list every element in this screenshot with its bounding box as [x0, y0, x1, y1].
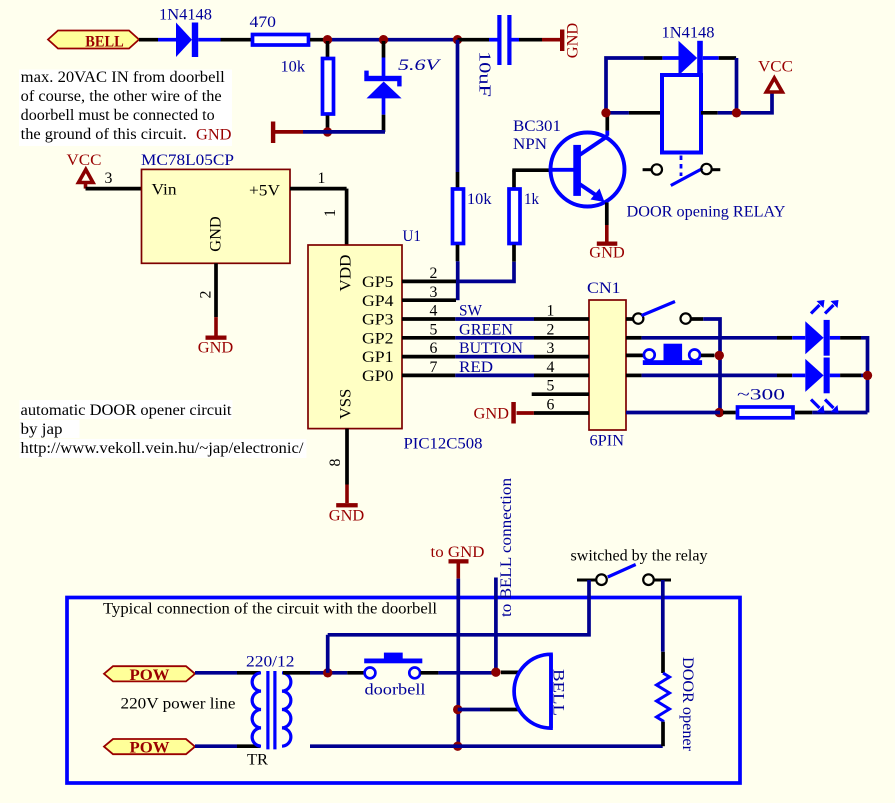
svg-text:5: 5 — [547, 378, 555, 395]
diode D1 1N4148 — [158, 23, 221, 58]
svg-text:SW: SW — [459, 303, 482, 320]
svg-text:TR: TR — [247, 752, 269, 769]
svg-text:4: 4 — [430, 303, 438, 320]
svg-text:RED: RED — [459, 359, 493, 376]
svg-text:VCC: VCC — [758, 59, 793, 76]
credit line 1 — [20, 400, 233, 419]
relay switch — [643, 164, 721, 186]
resistor DOOR opener — [657, 652, 670, 746]
wire — [237, 744, 260, 748]
wire (BELL top pin) — [501, 671, 520, 675]
svg-text:220V power line: 220V power line — [121, 696, 236, 713]
svg-text:470: 470 — [250, 14, 277, 31]
bell BELL — [514, 654, 551, 728]
svg-text:6: 6 — [547, 397, 555, 414]
svg-text:the ground of this circuit.: the ground of this circuit. — [21, 126, 187, 143]
port POW (neutral) — [104, 739, 195, 757]
ground GND (U1 VSS) — [329, 485, 365, 525]
svg-text:+5V: +5V — [249, 183, 280, 200]
junction — [453, 742, 462, 751]
wire — [519, 38, 542, 42]
wire GP3 to CN1 pin1 — [402, 317, 589, 321]
transistor Q1 — [551, 131, 625, 207]
svg-text:2: 2 — [198, 290, 215, 298]
power VCC (relay) — [758, 59, 793, 93]
wire (to BELL vertical) — [494, 578, 498, 673]
svg-text:GREEN: GREEN — [459, 321, 513, 338]
svg-text:BELL: BELL — [550, 669, 567, 716]
svg-text:GP4: GP4 — [362, 293, 394, 310]
wire (resistor to rail) — [812, 411, 867, 415]
svg-text:6PIN: 6PIN — [590, 433, 625, 450]
pin wire — [629, 111, 662, 115]
wire (rail to 10k) — [456, 40, 460, 172]
wire (bottom row) — [310, 744, 663, 748]
ground to-GND symbol — [449, 559, 469, 578]
wire GP1 to CN1 pin3 — [402, 355, 589, 359]
svg-text:2: 2 — [430, 265, 438, 282]
wire (right rail) — [861, 338, 868, 413]
wire (switch left leg) — [328, 580, 589, 635]
capacitor 10uF — [489, 15, 519, 65]
svg-text:BC301: BC301 — [513, 118, 561, 135]
pin GP4 wire — [402, 298, 456, 302]
wire (10k to GP4) — [456, 261, 460, 300]
svg-text:MC78L05CP: MC78L05CP — [141, 152, 234, 169]
svg-text:2: 2 — [547, 321, 555, 338]
wire — [328, 38, 458, 42]
push button SW2 — [626, 344, 714, 365]
svg-text:max. 20VAC IN from doorbell: max. 20VAC IN from doorbell — [21, 69, 225, 86]
pin wire — [701, 111, 718, 115]
svg-text:4: 4 — [547, 359, 555, 376]
svg-text:VSS: VSS — [337, 389, 354, 420]
svg-text:1: 1 — [322, 209, 339, 217]
junction — [732, 108, 741, 117]
power VCC (regulator input) — [67, 152, 102, 189]
regulator U MC78L05CP — [141, 152, 290, 263]
svg-text:6: 6 — [430, 340, 438, 357]
svg-text:220/12: 220/12 — [246, 654, 295, 671]
junction — [453, 705, 462, 714]
svg-text:DOOR opening RELAY: DOOR opening RELAY — [627, 204, 786, 221]
svg-text:CN1: CN1 — [587, 280, 621, 297]
wire GP0 to CN1 pin4 — [402, 374, 589, 378]
svg-text:GP3: GP3 — [362, 312, 394, 329]
push button doorbell — [347, 653, 438, 679]
wire (switch to bus) — [703, 319, 720, 413]
svg-text:GP0: GP0 — [362, 368, 394, 385]
wire (1k to base) — [512, 168, 551, 172]
svg-text:automatic DOOR opener circuit: automatic DOOR opener circuit — [21, 402, 233, 419]
svg-text:BUTTON: BUTTON — [459, 340, 523, 357]
wire — [642, 374, 777, 378]
wire (1k to GP5) — [456, 262, 514, 282]
wire — [283, 671, 310, 675]
wire — [195, 671, 237, 675]
relay switch (lower) — [577, 565, 671, 586]
svg-text:of course, the other wire of t: of course, the other wire of the — [21, 88, 222, 105]
svg-text:doorbell must be connected to: doorbell must be connected to — [21, 107, 215, 124]
wire — [195, 744, 237, 748]
resistor 10k (pullup) — [453, 172, 464, 261]
svg-text:3: 3 — [547, 340, 555, 357]
svg-text:VDD: VDD — [337, 255, 354, 292]
svg-text:GND: GND — [196, 127, 232, 144]
wire (green LED row) — [626, 336, 642, 340]
svg-text:1k: 1k — [524, 191, 539, 208]
pin 3 wire — [86, 187, 142, 191]
port BELL — [48, 31, 139, 51]
pin 5 stub — [532, 392, 589, 396]
svg-text:8: 8 — [327, 458, 344, 466]
LED red arrows — [811, 400, 839, 414]
junction — [323, 127, 332, 136]
svg-text:1N4148: 1N4148 — [662, 25, 715, 42]
svg-text:PIC12C508: PIC12C508 — [404, 436, 483, 453]
svg-text:VCC: VCC — [67, 152, 102, 169]
svg-text:GND: GND — [589, 245, 625, 262]
svg-text:GND: GND — [208, 216, 225, 252]
wire — [458, 38, 490, 42]
collector wire — [605, 113, 609, 131]
resistor 10k — [323, 41, 334, 132]
svg-text:10k: 10k — [467, 191, 492, 208]
wire — [438, 671, 496, 675]
svg-text:by jap: by jap — [21, 421, 63, 438]
svg-text:Typical connection of the circ: Typical connection of the circuit with t… — [103, 601, 437, 618]
svg-text:1: 1 — [318, 170, 326, 187]
wire (right leg) — [735, 58, 739, 113]
resistor ~300 — [723, 407, 812, 418]
svg-text:Vin: Vin — [152, 182, 177, 199]
pin 8 wire — [345, 429, 349, 485]
junction — [453, 35, 462, 44]
svg-text:3: 3 — [430, 284, 438, 301]
wire GP2 to CN1 pin2 — [402, 336, 589, 340]
pin GP5 wire — [402, 280, 456, 284]
pin 2 wire — [214, 263, 218, 317]
svg-text:10uF: 10uF — [476, 51, 495, 97]
svg-text:1: 1 — [547, 303, 555, 320]
junction — [491, 668, 500, 677]
svg-text:to GND: to GND — [431, 544, 485, 561]
svg-text:POW: POW — [130, 667, 170, 684]
svg-text:5.6V: 5.6V — [398, 57, 441, 74]
svg-text:NPN: NPN — [513, 136, 547, 153]
svg-text:GND: GND — [198, 340, 234, 357]
resistor 1k — [509, 170, 520, 262]
junction — [715, 408, 724, 417]
svg-text:switched by the relay: switched by the relay — [571, 548, 708, 565]
svg-text:GND: GND — [565, 23, 582, 59]
junction — [715, 351, 724, 360]
svg-text:GND: GND — [474, 406, 510, 423]
wire — [303, 130, 385, 134]
wire (BELL bottom pin) — [458, 708, 520, 712]
wire — [221, 38, 252, 42]
dotted actuator line — [680, 156, 683, 177]
ground GND (left) — [196, 122, 303, 144]
outer box — [67, 598, 740, 784]
svg-text:doorbell: doorbell — [365, 682, 426, 699]
svg-text:~300: ~300 — [737, 387, 785, 404]
port POW (line) — [104, 666, 195, 684]
wire — [310, 671, 347, 675]
svg-text:3: 3 — [105, 170, 113, 187]
junction — [601, 108, 610, 117]
svg-text:GND: GND — [329, 508, 365, 525]
relay coil K1 — [662, 75, 701, 153]
svg-text:GP2: GP2 — [362, 330, 394, 347]
connector CN1 — [589, 300, 626, 430]
svg-text:GP5: GP5 — [362, 274, 394, 291]
svg-text:to BELL connection: to BELL connection — [498, 478, 515, 617]
ground GND (CN1 pin6) — [474, 402, 516, 424]
svg-text:DOOR opener: DOOR opener — [679, 657, 696, 752]
wire — [861, 374, 868, 378]
resistor 470 — [253, 35, 309, 46]
wire — [237, 671, 260, 675]
diode D2 1N4148 — [644, 41, 737, 76]
svg-text:10k: 10k — [281, 59, 306, 76]
svg-text:POW: POW — [130, 740, 170, 757]
switch SW1 — [626, 302, 703, 324]
IC U1 PIC12C508 — [308, 245, 402, 429]
svg-text:1N4148: 1N4148 — [159, 7, 212, 24]
wire (to relay feed) — [326, 635, 330, 673]
ground GND (top right) — [542, 23, 582, 59]
svg-text:U1: U1 — [403, 228, 422, 245]
wire CN1 pin6 to bus — [626, 411, 720, 415]
credit line 2 — [20, 420, 80, 438]
wire (to VCC) — [718, 93, 772, 113]
LED red — [777, 358, 861, 394]
credit line 3 — [20, 439, 307, 458]
svg-text:GP1: GP1 — [362, 349, 394, 366]
junction — [323, 668, 332, 677]
wire (left leg) — [606, 58, 644, 113]
wire GND to CN1 pin6 — [517, 411, 590, 415]
junction — [323, 35, 332, 44]
LED green — [777, 320, 861, 356]
junction — [379, 35, 388, 44]
wire (GND vertical) — [456, 579, 460, 747]
LED green arrows — [811, 300, 839, 314]
pin 1 wire — [290, 189, 347, 245]
emitter wire — [605, 203, 609, 226]
note paragraph — [19, 69, 232, 146]
svg-text:BELL: BELL — [85, 34, 124, 51]
wire (switch right leg) — [661, 580, 665, 652]
ground GND (emitter) — [589, 225, 625, 262]
transformer TR — [252, 671, 291, 749]
svg-text:5: 5 — [430, 321, 438, 338]
junction — [863, 371, 872, 380]
svg-text:http://www.vekoll.vein.hu/~jap: http://www.vekoll.vein.hu/~jap/electroni… — [21, 440, 305, 457]
svg-text:7: 7 — [430, 359, 438, 376]
wire — [310, 38, 328, 42]
wire (red LED row) — [626, 374, 642, 378]
wire (to relay coil left) — [606, 111, 629, 115]
wire — [139, 38, 158, 42]
ground GND (regulator) — [198, 317, 234, 356]
wire — [642, 336, 777, 340]
zener diode 5.6V — [364, 41, 401, 132]
